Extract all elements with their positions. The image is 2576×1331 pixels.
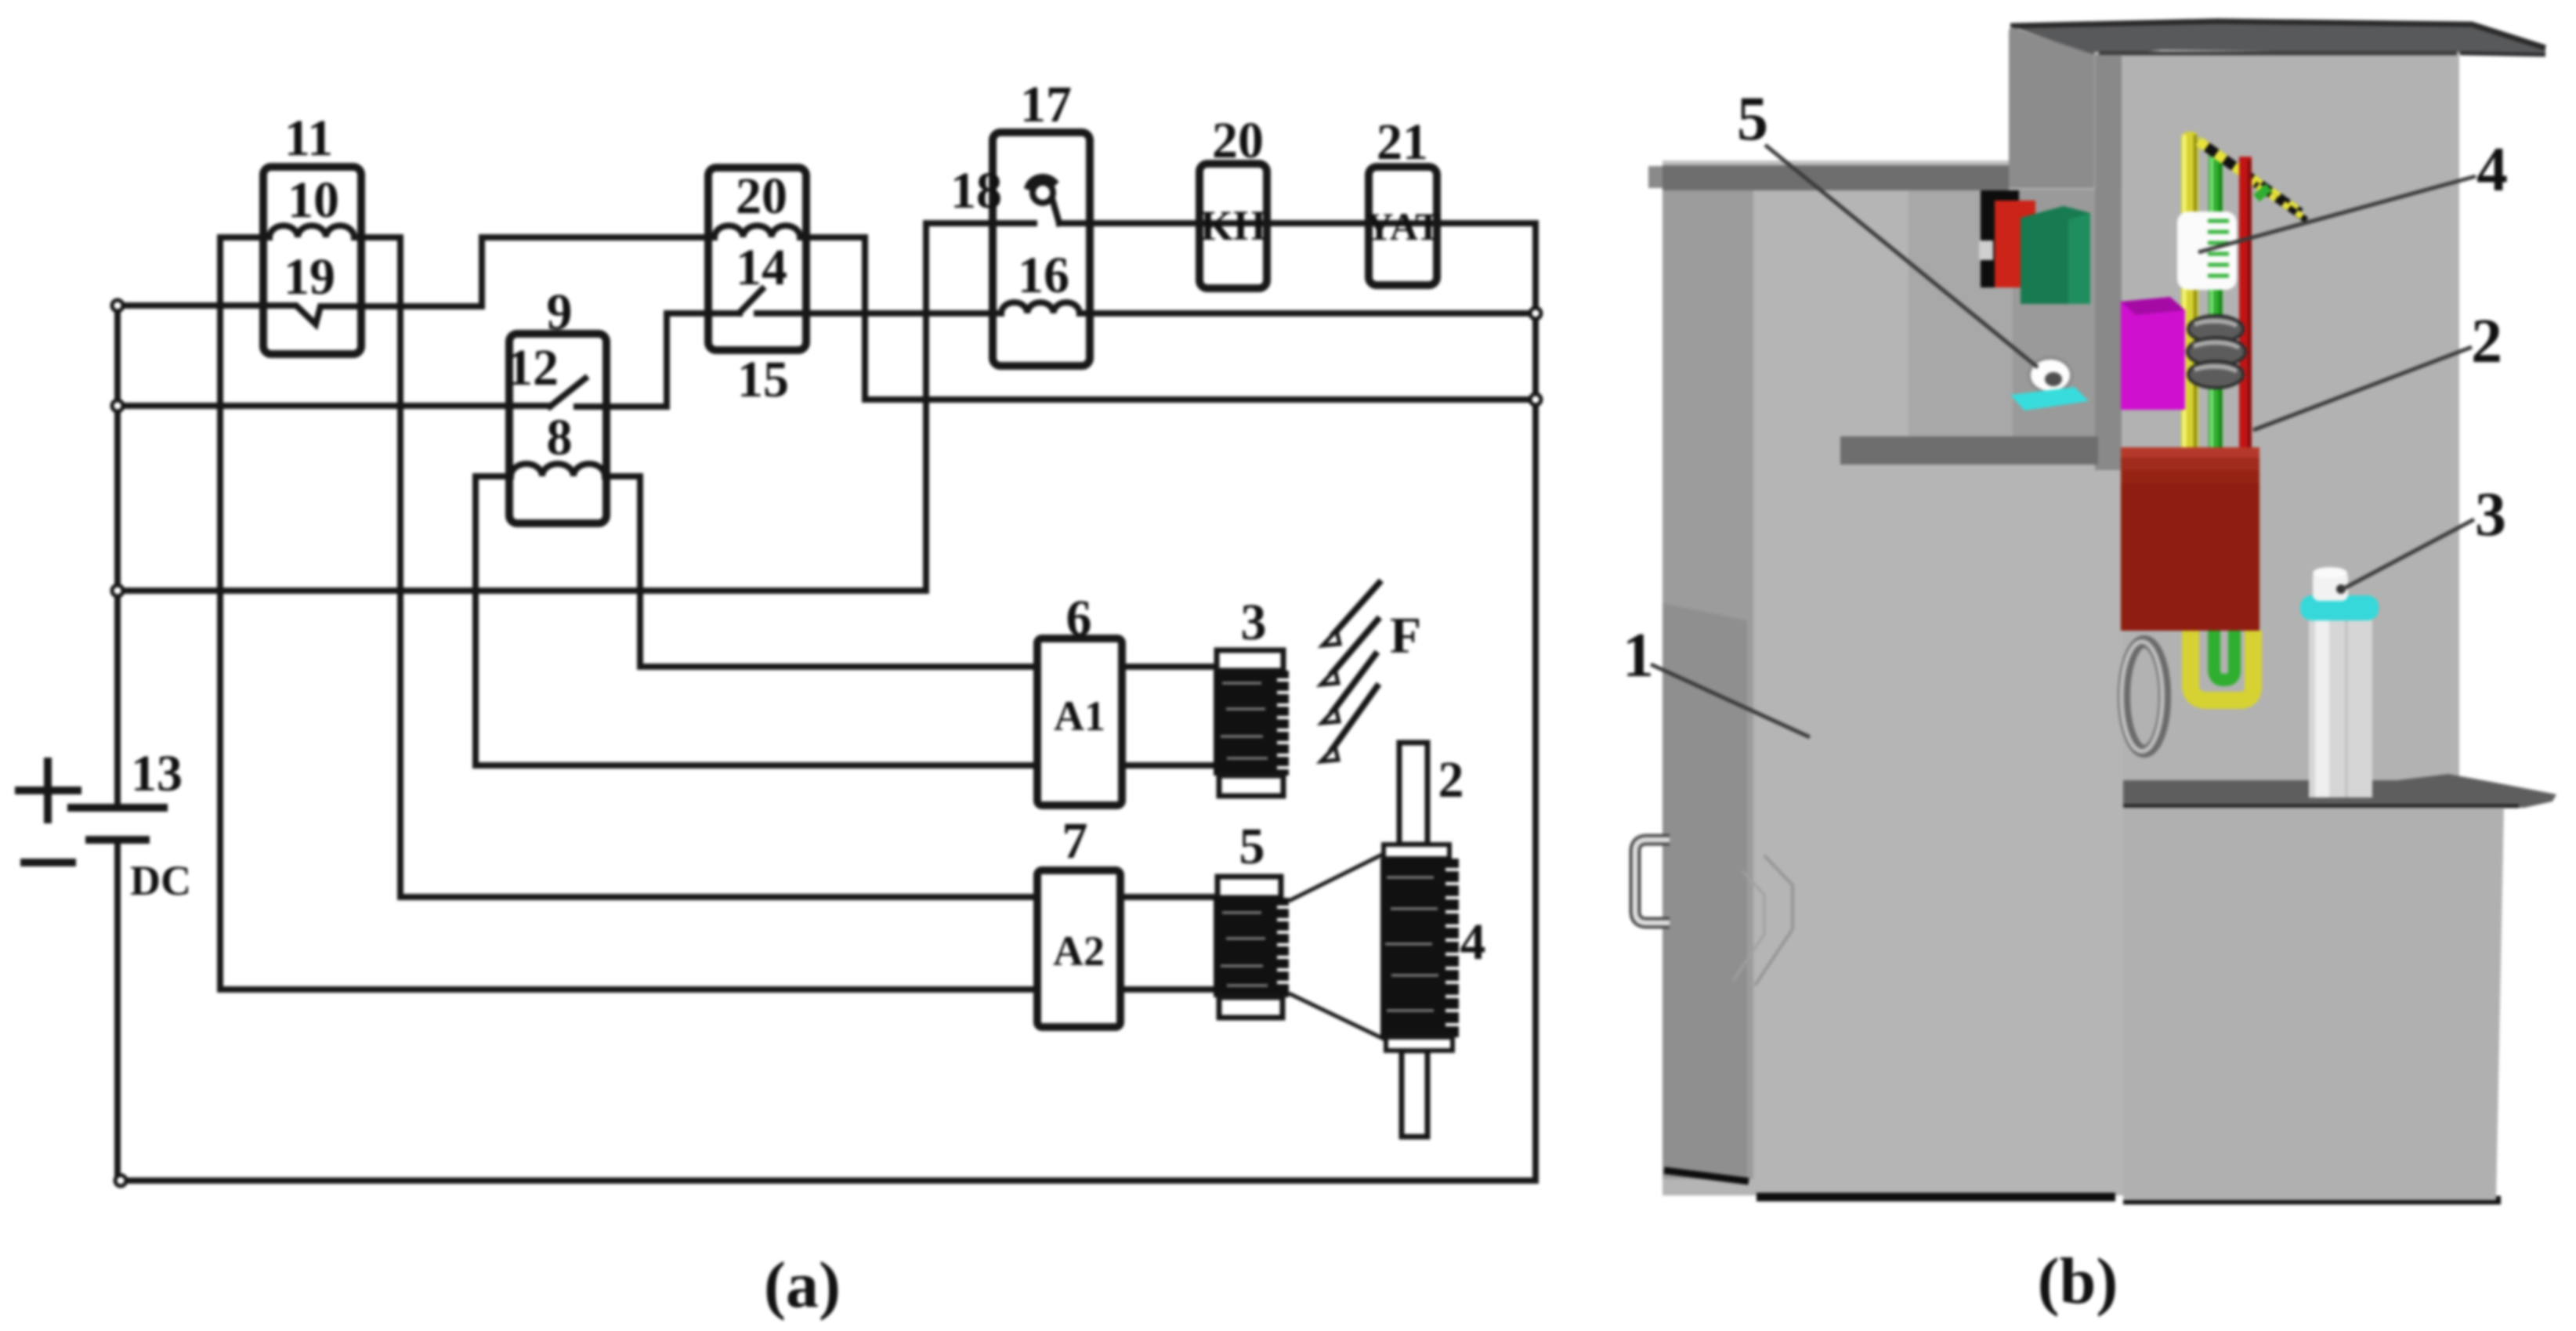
battery plate short (-) (89, 836, 146, 844)
node dots (112, 300, 1541, 1186)
base ledge dark band (2123, 774, 2556, 808)
wire: coil 10 leads (220, 234, 400, 241)
wall left shadow column (2095, 55, 2122, 470)
node right-bus line3 (1530, 394, 1541, 405)
component boxes (263, 132, 1437, 1027)
svg-text:20: 20 (736, 168, 787, 225)
bottom black edge lines (1757, 1197, 2501, 1200)
leader line 5 (1765, 145, 2038, 367)
inner back wall strip (2009, 27, 2095, 470)
wire: right vertical bus (1532, 223, 1539, 1181)
handle (1635, 840, 1670, 923)
wire: A2 right leads to coil 5 (1120, 897, 1216, 989)
green U pipe nested (2214, 631, 2234, 680)
svg-text:2: 2 (2471, 307, 2502, 376)
grey bellows (2187, 316, 2245, 388)
svg-text:3: 3 (2475, 480, 2506, 549)
svg-text:12: 12 (507, 339, 559, 396)
cavity left cut band (1908, 190, 2013, 439)
wire: L from coil10 right lead to A2 upper (400, 237, 1037, 897)
red box component (1995, 201, 2035, 288)
svg-text:F: F (1390, 607, 1421, 664)
svg-text:6: 6 (1066, 590, 1092, 647)
node bottom-left (115, 1175, 126, 1186)
force arrows F (1330, 581, 1381, 752)
relay box 17 (993, 132, 1090, 366)
wire: bus3 with riser to line1 (118, 223, 926, 591)
coil 16 arcs (1001, 302, 1080, 313)
svg-text:21: 21 (1377, 114, 1428, 171)
trapezoid link coil5 to coil4 (1289, 855, 1385, 1040)
relay box 9 (509, 334, 606, 523)
contact 18 symbol (1033, 183, 1053, 203)
svg-text:14: 14 (736, 239, 787, 296)
coil 5 (hatched solenoid) (1214, 877, 1293, 1018)
svg-text:5: 5 (1239, 818, 1265, 875)
svg-text:7: 7 (1062, 812, 1088, 870)
svg-text:A1: A1 (1054, 693, 1105, 740)
cyan pad under grommet (2010, 387, 2089, 411)
svg-text:18: 18 (950, 162, 1002, 219)
coil 8 arcs (511, 464, 605, 476)
minus sign (24, 859, 72, 866)
battery plate long (+) (71, 804, 164, 812)
lifting ring (2124, 642, 2165, 751)
svg-text:8: 8 (547, 409, 573, 466)
coil 4 (hatched solenoid on rod) (1380, 845, 1463, 1051)
svg-text:16: 16 (1018, 247, 1069, 304)
striped tie rods (2198, 141, 2300, 213)
svg-text:10: 10 (288, 172, 339, 229)
figure b labels (1623, 85, 2508, 690)
wire: line1 from contact 18 through KH and YAT to right bus (1059, 220, 1536, 226)
svg-text:4: 4 (2477, 136, 2508, 204)
wire: A1 right leads to coil 3 (1122, 667, 1216, 765)
white coil 4b (2177, 212, 2237, 290)
green pipe (2209, 149, 2223, 472)
leader line 1 (1651, 664, 1810, 737)
svg-text:DC: DC (130, 857, 191, 904)
svg-text:A2: A2 (1053, 928, 1105, 975)
black bracket component (1981, 190, 2019, 288)
box A1 (1037, 638, 1122, 805)
svg-text:13: 13 (131, 745, 183, 802)
armature rod 2 (1399, 743, 1427, 1137)
red rod (2239, 157, 2252, 484)
box A2 (1037, 870, 1120, 1027)
relay box 11 (263, 167, 361, 354)
box KH (1199, 164, 1267, 288)
node bus1-left (112, 300, 123, 311)
coil 3 (hatched solenoid) (1214, 650, 1293, 796)
wire: L from coil8 left lead to A1 lower (476, 476, 1037, 765)
node bus3-left (112, 585, 123, 596)
hexagon cutout mark (1755, 855, 1793, 986)
right wall front face (2094, 52, 2459, 783)
cavity interior (2013, 190, 2095, 439)
svg-text:3: 3 (1241, 594, 1267, 651)
wire: contact 14 output through coil 16 to right bus (757, 310, 1536, 316)
grommet 5 (2029, 358, 2071, 392)
maroon box (2121, 447, 2259, 631)
wire: bus1 with contact 19 notch (118, 237, 715, 324)
coil 10 arcs (270, 226, 354, 237)
svg-text:11: 11 (284, 110, 333, 167)
wire: coil 20 right lead down to right bus (800, 237, 1536, 400)
box YAT (1369, 167, 1437, 285)
node bus2-left (112, 400, 123, 411)
leader line 2 (2253, 347, 2472, 430)
svg-text:19: 19 (284, 248, 335, 306)
wire: contact 12 output up to contact 14 (577, 313, 740, 407)
wire: bottom bus (118, 1177, 1536, 1184)
svg-text:2: 2 (1438, 751, 1464, 808)
svg-text:4: 4 (1460, 913, 1486, 971)
cavity shelf (1840, 436, 2098, 465)
svg-text:15: 15 (737, 351, 789, 408)
wire: coil 8 leads (476, 473, 640, 479)
svg-text:(a): (a) (764, 1249, 841, 1322)
tower top face band (1662, 161, 2009, 190)
relay box 20/14 (708, 168, 806, 350)
svg-text:1: 1 (1623, 621, 1654, 690)
tower front face (1662, 188, 2123, 1195)
svg-text:YAT: YAT (1365, 204, 1441, 248)
contact 12 blade (550, 378, 585, 407)
tower left column (slightly darker) (1662, 190, 1753, 1179)
wire: bus2 to contact 12 (118, 403, 550, 409)
cylinder 3 (2309, 608, 2372, 798)
wire: line1 to contact 18 (926, 220, 1034, 226)
base front face (2123, 808, 2504, 1200)
svg-text:9: 9 (547, 284, 573, 341)
green box component (2021, 206, 2090, 304)
magenta box (2121, 297, 2185, 410)
wire: L from coil10 left lead to A2 lower (220, 237, 1037, 989)
wire: L from coil8 right lead to A1 upper (640, 476, 1037, 667)
svg-text:(b): (b) (2038, 1245, 2118, 1318)
plus sign (19, 761, 78, 819)
tower dark side panel (1662, 603, 1747, 1178)
wire: left vertical bus (114, 306, 121, 1181)
leader line 4 (2198, 176, 2476, 252)
circuit labels (131, 76, 1486, 971)
yellow U pipe below maroon box (2191, 631, 2253, 700)
roof slab (2010, 21, 2545, 56)
svg-text:20: 20 (1212, 112, 1264, 169)
leader line 3 (2343, 519, 2474, 589)
svg-text:5: 5 (1737, 85, 1768, 154)
coil 20 arcs (715, 226, 800, 237)
svg-text:KH: KH (1200, 202, 1266, 249)
node right-bus line2 (1530, 308, 1541, 319)
svg-text:17: 17 (1020, 76, 1072, 133)
contact 14 blade (740, 289, 762, 313)
yellow pipe (2181, 132, 2198, 464)
